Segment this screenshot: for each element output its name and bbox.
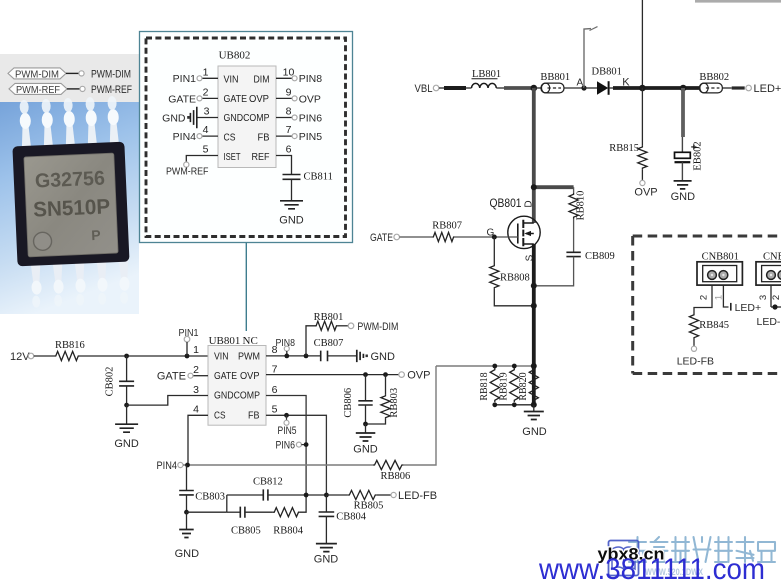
svg-text:LED-FB: LED-FB bbox=[398, 490, 437, 502]
svg-text:BB802: BB802 bbox=[699, 72, 729, 83]
ground under CB804 bbox=[314, 544, 339, 566]
svg-text:NC: NC bbox=[243, 335, 258, 347]
svg-text:RB801: RB801 bbox=[314, 312, 344, 323]
capacitor CB806 bbox=[343, 375, 373, 424]
junction node Y bbox=[304, 493, 309, 498]
svg-text:1: 1 bbox=[714, 295, 725, 300]
svg-text:GATE: GATE bbox=[370, 232, 393, 244]
CNB801 pin 1 wire to LED+ bbox=[714, 285, 762, 314]
junction RB803 top bbox=[383, 372, 388, 377]
CNB802 pin wires bbox=[757, 285, 781, 328]
svg-text:2: 2 bbox=[771, 295, 781, 300]
op-amp / controller U B802 body bbox=[218, 66, 276, 168]
junction CB802 top bbox=[124, 354, 129, 359]
resistor RB805 to LED-FB bbox=[326, 490, 437, 512]
vertical wire from top edge to node K bbox=[641, 0, 643, 88]
svg-text:GND: GND bbox=[162, 112, 186, 124]
junction CB806/RB803 bottom bbox=[363, 422, 368, 427]
svg-text:PIN8: PIN8 bbox=[276, 337, 296, 349]
svg-text:PIN6: PIN6 bbox=[299, 112, 323, 124]
svg-text:ISET: ISET bbox=[224, 152, 241, 163]
junction RB819 top bbox=[512, 364, 517, 369]
capacitor CB809 bbox=[566, 251, 614, 262]
terminal GATE (to QB801) bbox=[370, 232, 400, 244]
svg-text:GND: GND bbox=[671, 191, 696, 203]
svg-text:1: 1 bbox=[203, 66, 209, 78]
svg-text:12V: 12V bbox=[10, 351, 30, 363]
ground under CB802 bbox=[114, 405, 139, 450]
resistor RB820 bbox=[518, 368, 538, 402]
svg-text:CB812: CB812 bbox=[253, 477, 283, 488]
svg-text:RB845: RB845 bbox=[699, 320, 729, 331]
terminal PIN6 bbox=[276, 440, 309, 452]
svg-text:RB807: RB807 bbox=[432, 221, 462, 232]
svg-text:1: 1 bbox=[193, 344, 199, 356]
svg-text:3: 3 bbox=[758, 295, 769, 300]
svg-text:RB818: RB818 bbox=[479, 372, 490, 400]
junction PIN1 bbox=[185, 354, 190, 359]
svg-text:RB806: RB806 bbox=[381, 471, 411, 482]
UB801 pin 3 (GNDCOMP) wire to CB802 ground node bbox=[127, 384, 260, 405]
svg-text:QB801: QB801 bbox=[490, 196, 522, 210]
wire VBL to LB801 (thick segment) bbox=[439, 87, 472, 89]
UB802 pin 6 (REF) wire to CB811 bbox=[252, 144, 292, 175]
inductor LB801 bbox=[472, 69, 502, 88]
terminal PIN4 bbox=[157, 460, 183, 472]
svg-text:RB805: RB805 bbox=[354, 501, 384, 512]
svg-text:OVP: OVP bbox=[407, 370, 430, 382]
junction RB818 top bbox=[492, 364, 497, 369]
svg-text:PIN5: PIN5 bbox=[299, 131, 323, 143]
wire RB816 to UB801 VIN bbox=[80, 355, 209, 357]
svg-text:P: P bbox=[91, 227, 101, 243]
capacitor CB811 bbox=[283, 172, 333, 183]
terminal OVP (pin7) bbox=[399, 370, 431, 382]
svg-text:VIN: VIN bbox=[214, 350, 229, 362]
svg-text:6: 6 bbox=[272, 384, 278, 396]
svg-text:CB806: CB806 bbox=[343, 388, 354, 418]
svg-text:GND: GND bbox=[522, 426, 547, 438]
UB802 pin 5 (ISET) to PWM-REF terminal bbox=[166, 144, 241, 178]
junction PIN4 / CS / CB803 bbox=[185, 463, 190, 468]
wire GATE to RB807 bbox=[400, 236, 433, 238]
svg-text:GATE: GATE bbox=[224, 94, 248, 105]
ferrite bead BB802 bbox=[699, 72, 729, 93]
thick source wire of QB801 bbox=[532, 244, 536, 405]
long gray wire PIN4 to sense corner with RB806 bbox=[183, 366, 436, 465]
svg-text:3: 3 bbox=[193, 384, 199, 396]
svg-text:2: 2 bbox=[699, 295, 710, 300]
svg-text:CS: CS bbox=[214, 409, 226, 421]
svg-text:LED-F: LED-F bbox=[757, 316, 781, 328]
terminal 12V bbox=[10, 351, 34, 363]
svg-text:PIN4: PIN4 bbox=[173, 131, 197, 143]
svg-text:RB803: RB803 bbox=[389, 388, 400, 418]
svg-text:CNB801: CNB801 bbox=[702, 252, 739, 263]
UB801 pin 4 (CS) wire down to PIN4 node bbox=[188, 404, 226, 466]
svg-text:GND: GND bbox=[114, 438, 139, 450]
svg-text:PWM-REF: PWM-REF bbox=[91, 84, 132, 96]
svg-text:LED+: LED+ bbox=[735, 302, 762, 314]
svg-text:CB809: CB809 bbox=[585, 251, 615, 262]
thick drain wire from top rail to QB801 bbox=[532, 88, 536, 223]
svg-text:7: 7 bbox=[272, 364, 278, 376]
svg-text:GATE: GATE bbox=[157, 371, 186, 383]
electrolytic capacitor EB802 bbox=[675, 88, 704, 181]
junction at drain / RB810 branch bbox=[531, 184, 537, 190]
wire RB804 to node Y bbox=[300, 495, 306, 512]
wire RB807 to gate node G bbox=[455, 228, 518, 239]
svg-text:OVP: OVP bbox=[634, 187, 657, 199]
UB801 pin 6 bbox=[272, 384, 278, 396]
photo of IC chip G32756 SN510P bbox=[0, 96, 139, 314]
ground under EB802 bbox=[671, 181, 696, 203]
junction node K bbox=[639, 85, 646, 92]
transistor QB801 N-MOSFET bbox=[490, 196, 541, 261]
UB802 pin 1 (VIN) with PIN1 terminal bbox=[173, 66, 239, 85]
svg-text:CB805: CB805 bbox=[231, 526, 261, 537]
background patch behind net labels bbox=[0, 54, 139, 102]
resistor RB801 to PWM-DIM bbox=[306, 312, 398, 356]
callout line from detail box to UB801 bbox=[245, 243, 247, 331]
node A (diode anode) bbox=[577, 77, 587, 90]
UB801 pin 2 (GATE) bbox=[157, 364, 237, 383]
wire CB811 to ground bbox=[291, 179, 293, 201]
capacitor CB802 bbox=[105, 356, 135, 405]
junction CB802 bottom / pin3 net bbox=[124, 403, 129, 408]
junction source at sense rail bbox=[531, 363, 537, 369]
ground under sense resistors bbox=[522, 405, 547, 438]
svg-text:GATE: GATE bbox=[214, 370, 237, 382]
svg-text:VIN: VIN bbox=[224, 75, 239, 86]
svg-text:G32756: G32756 bbox=[34, 168, 105, 193]
svg-text:LB801: LB801 bbox=[472, 69, 501, 80]
svg-text:BB801: BB801 bbox=[540, 72, 570, 83]
svg-text:DB801: DB801 bbox=[592, 67, 622, 78]
svg-text:REF: REF bbox=[252, 152, 270, 163]
svg-text:10: 10 bbox=[283, 66, 295, 78]
wire BB802 to LED+ terminal bbox=[722, 83, 781, 95]
svg-text:PIN1: PIN1 bbox=[179, 327, 199, 339]
ground under CB803 bbox=[175, 512, 200, 560]
svg-text:SN510P: SN510P bbox=[33, 195, 111, 221]
partial bar at top right edge bbox=[695, 0, 781, 3]
svg-text:FB: FB bbox=[248, 409, 260, 421]
wire compensation bottom branch bbox=[187, 511, 227, 513]
svg-text:2: 2 bbox=[193, 364, 199, 376]
svg-text:PWM-DIM: PWM-DIM bbox=[357, 321, 398, 333]
svg-text:PWM-REF: PWM-REF bbox=[16, 85, 60, 96]
terminal PIN1 above pin 1 bbox=[179, 327, 199, 356]
UB801 pin 8 (PWM) bbox=[238, 344, 278, 362]
UB801 pin 5 (FB) bbox=[248, 404, 278, 422]
capacitor CB803 bbox=[179, 465, 225, 512]
capacitor CB807 bbox=[314, 338, 344, 361]
diode DB801 bbox=[584, 67, 622, 95]
svg-text:RB816: RB816 bbox=[55, 340, 85, 351]
UB802 pin 10 (DIM) to PIN8 bbox=[254, 66, 323, 85]
UB801 pin8 wire with CB807 bbox=[266, 355, 321, 357]
resistor RB808 gate to source bbox=[490, 237, 534, 306]
resistor RB806 bbox=[373, 460, 410, 482]
off-page hook wire above node A bbox=[584, 27, 598, 88]
svg-text:9: 9 bbox=[286, 86, 292, 98]
svg-text:DIM: DIM bbox=[254, 75, 270, 86]
svg-text:VBL: VBL bbox=[415, 83, 433, 95]
wire CB807 to rotated ground bbox=[328, 355, 357, 357]
svg-text:7: 7 bbox=[286, 124, 292, 136]
junction CB803 bottom bbox=[184, 510, 189, 515]
capacitor CB812 top branch bbox=[227, 477, 327, 501]
connector CNB801 bbox=[697, 252, 742, 286]
resistor RB816 bbox=[55, 340, 85, 361]
junction node at EB802 branch bbox=[680, 85, 687, 92]
wire CB805 to RB804 bbox=[245, 511, 273, 513]
dashed border of UB802 detail bbox=[146, 38, 346, 237]
junction RB801 branch bbox=[304, 354, 309, 359]
svg-text:5: 5 bbox=[203, 144, 209, 156]
svg-text:PIN4: PIN4 bbox=[157, 460, 178, 472]
UB802 pin 2 (GATE) bbox=[168, 86, 247, 105]
resistor RB845 bbox=[677, 314, 729, 368]
wire LB801 to drain junction (thick gray) bbox=[496, 87, 534, 89]
UB802 pin 4 (CS) with PIN4 terminal bbox=[173, 124, 236, 144]
svg-text:GND: GND bbox=[279, 215, 304, 227]
ground under CB806 bbox=[353, 424, 378, 456]
terminal PIN8 stub bbox=[276, 337, 296, 358]
controller UB801 body bbox=[208, 346, 266, 426]
UB801 pin 7 (OVP) bbox=[240, 364, 278, 382]
svg-text:www.3811111.com: www.3811111.com bbox=[538, 553, 765, 583]
ground under CB811 bbox=[279, 201, 304, 227]
svg-text:GNDCOMP: GNDCOMP bbox=[214, 390, 260, 402]
junction CB806 top bbox=[363, 372, 368, 377]
svg-text:OVP: OVP bbox=[240, 370, 260, 382]
svg-text:4: 4 bbox=[193, 404, 199, 416]
UB801 pin7 OVP wire bbox=[266, 374, 399, 376]
resistor RB804 bbox=[273, 508, 304, 537]
svg-text:PIN5: PIN5 bbox=[278, 425, 297, 437]
svg-text:GND: GND bbox=[175, 548, 200, 560]
svg-text:PWM-DIM: PWM-DIM bbox=[15, 69, 59, 80]
svg-text:RB819: RB819 bbox=[499, 372, 510, 400]
UB802 pin 7 (FB) to PIN5 bbox=[258, 124, 323, 144]
capacitor CB804 bbox=[319, 495, 367, 544]
svg-text:PIN8: PIN8 bbox=[299, 73, 323, 85]
resistor RB815 from node K to OVP bbox=[609, 88, 657, 199]
bottom rail of sense resistors bbox=[492, 402, 536, 408]
svg-text:CB811: CB811 bbox=[304, 172, 333, 183]
svg-text:CS: CS bbox=[224, 133, 236, 144]
wire RB810 to CB809 bbox=[573, 219, 575, 253]
svg-text:RB804: RB804 bbox=[273, 526, 304, 537]
svg-text:CB802: CB802 bbox=[105, 367, 116, 397]
resistor RB807 bbox=[432, 221, 462, 242]
svg-text:5: 5 bbox=[272, 404, 278, 416]
capacitor CB805 bbox=[227, 507, 261, 537]
svg-text:PWM: PWM bbox=[238, 350, 260, 362]
junction RB808 at source bbox=[531, 303, 537, 309]
svg-text:EB802: EB802 bbox=[693, 141, 704, 170]
svg-text:PWM-REF: PWM-REF bbox=[166, 166, 209, 178]
svg-text:OVP: OVP bbox=[299, 93, 321, 105]
junction node G bbox=[492, 235, 497, 240]
svg-text:6: 6 bbox=[286, 144, 292, 156]
svg-text:UB802: UB802 bbox=[219, 50, 251, 62]
junction PIN5 stub bbox=[278, 413, 297, 437]
dashed connector box bbox=[633, 236, 781, 374]
svg-text:4: 4 bbox=[203, 124, 209, 136]
svg-text:RB810: RB810 bbox=[576, 191, 587, 221]
net label PWM-DIM bbox=[8, 68, 131, 81]
wire CB809 to source node bbox=[534, 257, 574, 286]
svg-text:CB807: CB807 bbox=[314, 338, 344, 349]
svg-text:CB804: CB804 bbox=[336, 512, 367, 523]
svg-text:D: D bbox=[524, 200, 535, 207]
svg-text:LED+: LED+ bbox=[754, 83, 781, 95]
svg-text:CNB: CNB bbox=[763, 252, 781, 263]
svg-text:LED-FB: LED-FB bbox=[677, 356, 714, 368]
wire 12V to RB816 bbox=[34, 355, 55, 357]
svg-text:PIN1: PIN1 bbox=[173, 73, 197, 85]
rotated ground at CB807 (GND) bbox=[357, 350, 395, 363]
svg-text:GND: GND bbox=[353, 444, 378, 456]
net label PWM-REF bbox=[9, 83, 132, 96]
terminal VBL bbox=[415, 83, 439, 95]
svg-text:GATE: GATE bbox=[168, 93, 196, 105]
connector CNB802 (partial) bbox=[756, 252, 781, 286]
UB802 pin 9 (OVP) to OVP bbox=[249, 86, 321, 105]
UB801 pin6 wire down to compensation node bbox=[266, 396, 306, 496]
svg-text:8: 8 bbox=[286, 106, 292, 118]
svg-text:GND: GND bbox=[371, 351, 396, 363]
vertical link at node X bbox=[226, 495, 228, 512]
resistor RB810 bbox=[569, 187, 587, 220]
resistor RB803 bbox=[366, 375, 400, 424]
svg-text:OVP: OVP bbox=[249, 94, 269, 105]
svg-text:UB801: UB801 bbox=[209, 335, 241, 347]
svg-text:CB803: CB803 bbox=[195, 492, 225, 503]
junction FB vertical at RB805 bbox=[324, 493, 329, 498]
resistor RB819 bbox=[499, 368, 519, 402]
svg-text:PWM-DIM: PWM-DIM bbox=[91, 69, 131, 81]
svg-text:3: 3 bbox=[204, 106, 210, 118]
UB802 pin 8 to PIN6 bbox=[276, 106, 322, 125]
ferrite bead BB801 bbox=[540, 72, 570, 93]
svg-text:RB820: RB820 bbox=[518, 372, 529, 400]
wire BB801 to node A bbox=[564, 87, 584, 89]
svg-text:RB808: RB808 bbox=[500, 273, 530, 284]
CNB801 pin 2 wire bbox=[694, 285, 712, 313]
UB802 pin 3 (GNDCOMP) with rotated ground bbox=[162, 106, 270, 129]
sense rail wire (gray) from corner to source bbox=[436, 365, 534, 367]
svg-text:K: K bbox=[622, 77, 630, 89]
UB801 pin 1 (VIN) bbox=[193, 344, 228, 362]
wire cathode K to LED junctions (thick) bbox=[609, 77, 700, 89]
svg-text:2: 2 bbox=[203, 86, 209, 98]
svg-text:GND: GND bbox=[314, 554, 339, 566]
watermark book logo bbox=[609, 541, 639, 576]
svg-text:FB: FB bbox=[258, 133, 270, 144]
thick branch wire to RB810 bbox=[532, 185, 574, 189]
svg-text:PIN6: PIN6 bbox=[276, 440, 296, 452]
watermark chinese characters bbox=[629, 537, 775, 562]
detail callout box (teal) around UB802 bbox=[140, 32, 353, 243]
svg-text:GNDCOMP: GNDCOMP bbox=[224, 113, 270, 124]
junction node at VBL/drain bbox=[531, 85, 538, 92]
svg-text:RB815: RB815 bbox=[609, 143, 639, 154]
resistor RB818 bbox=[479, 368, 499, 402]
wire junction to BB801 bbox=[534, 87, 541, 89]
junction CB809 at source bbox=[531, 283, 537, 289]
UB801 pin5 FB wire bbox=[266, 415, 326, 495]
svg-text:A: A bbox=[577, 77, 584, 88]
